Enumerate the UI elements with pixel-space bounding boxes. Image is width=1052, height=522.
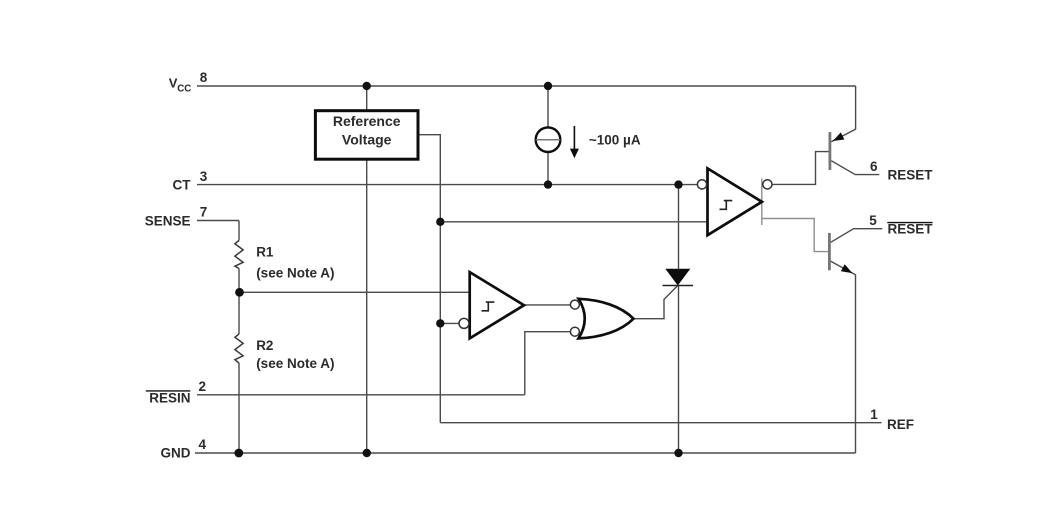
svg-text:GND: GND (161, 446, 191, 461)
svg-text:RESET: RESET (888, 222, 934, 237)
svg-text:4: 4 (199, 437, 207, 452)
svg-text:(see Note A): (see Note A) (256, 356, 334, 371)
svg-text:7: 7 (200, 205, 208, 220)
svg-text:REF: REF (887, 417, 914, 432)
svg-text:R2: R2 (256, 338, 273, 353)
svg-text:CT: CT (173, 177, 192, 192)
svg-text:Reference: Reference (333, 113, 401, 129)
svg-text:R1: R1 (256, 245, 274, 260)
svg-text:RESET: RESET (888, 167, 934, 182)
svg-text:3: 3 (200, 169, 208, 184)
svg-text:6: 6 (870, 159, 878, 174)
svg-text:8: 8 (200, 70, 208, 85)
svg-text:CC: CC (177, 83, 191, 94)
svg-text:(see Note A): (see Note A) (256, 265, 334, 280)
svg-text:RESIN: RESIN (149, 390, 190, 405)
svg-text:1: 1 (870, 407, 878, 422)
svg-text:2: 2 (199, 379, 207, 394)
svg-text:5: 5 (869, 213, 877, 228)
svg-text:~100 µA: ~100 µA (589, 132, 641, 147)
svg-text:SENSE: SENSE (145, 214, 191, 229)
svg-text:Voltage: Voltage (342, 131, 392, 147)
